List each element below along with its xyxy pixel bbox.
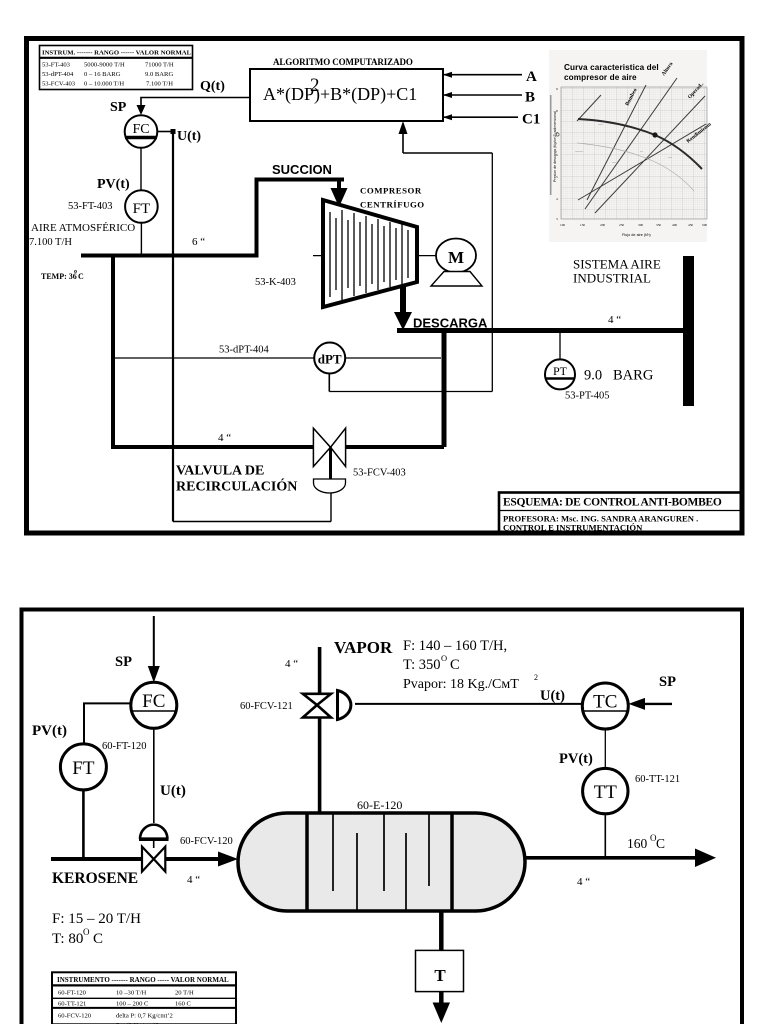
- signal wire FC-FT PV(t): [140, 148, 142, 190]
- svg-text:C: C: [450, 657, 460, 673]
- svg-text:U(t): U(t): [177, 129, 201, 144]
- svg-text:160 C: 160 C: [175, 1001, 192, 1008]
- svg-text:INSTRUMENTO ------- RANGO --: INSTRUMENTO ------- RANGO ----- VALOR NO…: [57, 976, 229, 984]
- descarga arrow: [394, 287, 412, 330]
- svg-text:9.0 BARG: 9.0 BARG: [584, 368, 654, 384]
- setpoint arrow into FC: [148, 616, 160, 683]
- svg-text:7.100 T/H: 7.100 T/H: [29, 237, 72, 248]
- svg-text:53-PT-405: 53-PT-405: [565, 391, 610, 402]
- svg-text:350: 350: [656, 223, 661, 227]
- transmitter FT 60-FT-120: [60, 744, 106, 790]
- svg-text:T: T: [434, 966, 446, 985]
- svg-text:FT: FT: [72, 758, 95, 779]
- svg-text:6: 6: [556, 153, 558, 157]
- svg-text:4: 4: [556, 197, 558, 201]
- svg-text:B: B: [525, 90, 535, 106]
- svg-text:53-dPT-404: 53-dPT-404: [219, 345, 270, 356]
- svg-text:COMPRESOR: COMPRESOR: [360, 186, 422, 196]
- svg-text:60-FCV-121: 60-FCV-121: [240, 701, 293, 712]
- svg-text:Flujo de aire (t/h): Flujo de aire (t/h): [622, 233, 651, 237]
- svg-text:SUCCION: SUCCION: [272, 162, 332, 177]
- svg-text:F: 140 – 160 T/H,: F: 140 – 160 T/H,: [403, 638, 507, 654]
- border frame diagram 2: [22, 610, 743, 1024]
- compressor centerline: [313, 255, 437, 257]
- svg-text:INDUSTRIAL: INDUSTRIAL: [573, 271, 651, 286]
- valve 60-FCV-121 with piston actuator: [303, 691, 351, 720]
- signal wire U(t) FC to valve: [157, 129, 331, 522]
- svg-text:2: 2: [534, 673, 538, 682]
- computer algorithm box U-ALG: [250, 69, 443, 121]
- svg-text:Presion de descarga (Kg/cm2) a: Presion de descarga (Kg/cm2) adimensiona…: [553, 111, 557, 182]
- svg-text:CONTROL E INSTRUMENTACIÓN: CONTROL E INSTRUMENTACIÓN: [503, 523, 643, 533]
- svg-text:T: 80: T: 80: [52, 931, 83, 947]
- sensing line FT to kerosene pipe: [82, 790, 85, 859]
- recirculation riser pipe: [111, 254, 115, 450]
- controller TC 60-TC: [582, 683, 628, 729]
- svg-text:200: 200: [600, 223, 605, 227]
- svg-text:M: M: [448, 248, 464, 267]
- svg-text:U(t): U(t): [160, 783, 186, 799]
- svg-text:....: ....: [668, 154, 672, 159]
- svg-text:5: 5: [556, 175, 558, 179]
- svg-text:0 – 10.000 T/H: 0 – 10.000 T/H: [84, 81, 124, 88]
- svg-text:100 – 200 C: 100 – 200 C: [116, 1001, 149, 1008]
- setpoint arrow into TC: [629, 698, 673, 710]
- signal wire FC-FT: [84, 703, 131, 743]
- svg-text:60-FCV-120: 60-FCV-120: [58, 1013, 92, 1020]
- svg-text:INSTRUM. ------- RANGO ------: INSTRUM. ------- RANGO ------ VALOR NORM…: [42, 50, 192, 57]
- instrument table 1: [40, 46, 193, 90]
- svg-text:53-FT-403: 53-FT-403: [68, 201, 113, 212]
- svg-text:C: C: [93, 931, 103, 947]
- svg-text:F: 15 – 20 T/H: F: 15 – 20 T/H: [52, 911, 141, 927]
- signal wire Q(t) from algorithm box to FC: [137, 98, 251, 116]
- svg-text:C: C: [78, 272, 84, 281]
- valve 60-FCV-120 with actuator: [139, 825, 169, 872]
- svg-text:PT: PT: [553, 364, 568, 378]
- svg-text:4 “: 4 “: [608, 314, 621, 326]
- svg-text:SP: SP: [115, 654, 132, 670]
- svg-text:3: 3: [556, 217, 558, 221]
- controller FC 60-FC: [131, 682, 177, 728]
- bottom outlet pipe: [439, 911, 444, 950]
- vapor pipe lower: [318, 718, 322, 814]
- svg-text:FC: FC: [132, 122, 149, 137]
- svg-text:SP: SP: [659, 674, 676, 690]
- border frame diagram 1: [27, 39, 743, 534]
- svg-text:4 “: 4 “: [218, 432, 231, 444]
- svg-text:o: o: [74, 269, 77, 275]
- transmitter dPT 53-dPT-404: [314, 343, 345, 374]
- differential pressure line dPT: [113, 121, 492, 392]
- svg-text:PV(t): PV(t): [97, 177, 130, 192]
- svg-text:Q(t): Q(t): [200, 79, 225, 94]
- svg-text:7.100 T/H: 7.100 T/H: [146, 81, 173, 88]
- signal wire valve to TC: [355, 703, 582, 705]
- svg-text:O: O: [83, 927, 90, 937]
- svg-text:5000-9000 T/H: 5000-9000 T/H: [84, 62, 125, 69]
- instrument table 2: [52, 972, 236, 1024]
- svg-text:T: 350: T: 350: [403, 657, 441, 673]
- svg-text:PV(t): PV(t): [32, 723, 67, 739]
- svg-text:delta P: 0,7 Kg/cmt’2: delta P: 0,7 Kg/cmt’2: [116, 1013, 173, 1020]
- svg-text:TT: TT: [594, 782, 618, 803]
- transmitter FT 53-FT-403: [125, 190, 158, 223]
- svg-text:4 “: 4 “: [187, 874, 200, 886]
- sensing line FT to pipe: [140, 223, 142, 254]
- svg-text:10 –30 T/H: 10 –30 T/H: [116, 990, 147, 997]
- svg-text:KEROSENE: KEROSENE: [52, 870, 138, 887]
- signal wire U(t) FC to valve: [153, 728, 155, 823]
- recirculation drop pipe: [442, 331, 447, 448]
- svg-text:C: C: [656, 836, 665, 851]
- svg-text:VALVULA DE: VALVULA DE: [176, 464, 264, 479]
- svg-text:450: 450: [688, 223, 693, 227]
- svg-text:100: 100: [560, 223, 565, 227]
- svg-text:53-FCV-403: 53-FCV-403: [353, 468, 406, 479]
- svg-text:500: 500: [702, 223, 707, 227]
- svg-text:53-FCV-403: 53-FCV-403: [42, 81, 76, 88]
- pipe terminal bar: [683, 256, 694, 406]
- svg-text:VAPOR: VAPOR: [334, 638, 393, 657]
- svg-text:60-E-120: 60-E-120: [357, 798, 402, 812]
- svg-text:SISTEMA AIRE: SISTEMA AIRE: [573, 257, 661, 272]
- heat exchanger 60-E-120: [238, 813, 525, 911]
- svg-text:ESQUEMA: DE CONTROL ANTI-BOM: ESQUEMA: DE CONTROL ANTI-BOMBEO: [503, 497, 722, 509]
- outlet arrow: [695, 849, 716, 868]
- compressor 53-K-403 body: [323, 200, 417, 307]
- svg-text:300: 300: [638, 223, 643, 227]
- svg-text:150: 150: [580, 223, 585, 227]
- scanned curve chart image: [549, 50, 713, 242]
- svg-text:SP: SP: [110, 100, 127, 115]
- svg-text:2: 2: [310, 75, 320, 96]
- signal wire TC-TT: [604, 729, 606, 768]
- controller FC 53-FC: [125, 115, 158, 148]
- svg-text:53-dPT-404: 53-dPT-404: [42, 71, 74, 78]
- svg-text:71000 T/H: 71000 T/H: [145, 62, 174, 69]
- svg-text:.....: .....: [598, 121, 603, 126]
- svg-text:4 “: 4 “: [577, 876, 590, 888]
- kerosene pipe: [51, 857, 142, 861]
- svg-text:60-FT-120: 60-FT-120: [58, 990, 87, 997]
- svg-text:U(t): U(t): [540, 688, 565, 704]
- svg-text:53-K-403: 53-K-403: [255, 277, 296, 288]
- transmitter PT 53-PT-405: [545, 333, 575, 389]
- suction pipe: [81, 180, 344, 256]
- sensing line TT to outlet pipe: [604, 814, 606, 858]
- svg-text:....: ....: [612, 159, 616, 164]
- kerosene arrow: [218, 852, 238, 867]
- input line B: [443, 92, 522, 98]
- svg-text:20 T/H: 20 T/H: [175, 990, 194, 997]
- suction arrow into compressor: [331, 180, 348, 208]
- vapor pipe upper: [318, 647, 322, 694]
- svg-text:FT: FT: [133, 201, 151, 217]
- bottom arrow: [433, 992, 450, 1023]
- trap box T: [416, 950, 464, 991]
- svg-text:C1: C1: [522, 112, 540, 128]
- svg-text:ALGORITMO COMPUTARIZADO: ALGORITMO COMPUTARIZADO: [273, 57, 413, 67]
- motor M: [431, 239, 482, 287]
- svg-text:PV(t): PV(t): [559, 751, 593, 767]
- svg-text:CENTRÍFUGO: CENTRÍFUGO: [360, 200, 425, 210]
- svg-text:400: 400: [672, 223, 677, 227]
- svg-text:........: ........: [575, 148, 583, 153]
- svg-text:60-FT-120: 60-FT-120: [102, 741, 147, 752]
- outlet pipe right: [525, 856, 698, 860]
- svg-text:compresor de aire: compresor de aire: [564, 73, 637, 82]
- input line C1: [443, 114, 518, 120]
- svg-text:A: A: [526, 69, 537, 85]
- svg-text:RECIRCULACIÓN: RECIRCULACIÓN: [176, 478, 297, 495]
- svg-text:9: 9: [556, 87, 558, 91]
- svg-text:9.0 BARG: 9.0 BARG: [145, 71, 173, 78]
- svg-text:dPT: dPT: [318, 352, 342, 367]
- transmitter TT 60-TT-121: [583, 768, 628, 813]
- svg-text:0 – 16 BARG: 0 – 16 BARG: [84, 71, 121, 78]
- svg-text:TEMP: 36: TEMP: 36: [41, 272, 77, 281]
- discharge pipe: [397, 328, 683, 333]
- svg-text:60-TT-121: 60-TT-121: [635, 774, 680, 785]
- svg-text:Curva caracteristica del: Curva caracteristica del: [564, 63, 659, 72]
- svg-text:AIRE ATMOSFÉRICO: AIRE ATMOSFÉRICO: [31, 222, 135, 234]
- svg-text:160: 160: [627, 836, 648, 851]
- svg-text:60-TT-121: 60-TT-121: [58, 1001, 86, 1008]
- svg-text:O: O: [441, 653, 447, 663]
- svg-text:250: 250: [619, 223, 624, 227]
- svg-text:A*(DP)+B*(DP)+C1: A*(DP)+B*(DP)+C1: [263, 84, 417, 105]
- svg-text:Pvapor: 18 Kg./CмT: Pvapor: 18 Kg./CмT: [403, 677, 519, 692]
- valve 53-FCV-403: [313, 428, 345, 493]
- title block: [499, 493, 742, 534]
- svg-text:...: ...: [640, 148, 643, 153]
- svg-text:60-FCV-120: 60-FCV-120: [180, 836, 233, 847]
- svg-text:8: 8: [556, 109, 558, 113]
- svg-text:6 “: 6 “: [192, 236, 205, 248]
- input line A: [443, 72, 522, 78]
- svg-text:TC: TC: [593, 692, 617, 713]
- svg-text:4 “: 4 “: [285, 658, 298, 670]
- recirculation pipe: [113, 445, 314, 449]
- svg-text:53-FT-403: 53-FT-403: [42, 62, 71, 69]
- svg-text:FC: FC: [142, 691, 165, 712]
